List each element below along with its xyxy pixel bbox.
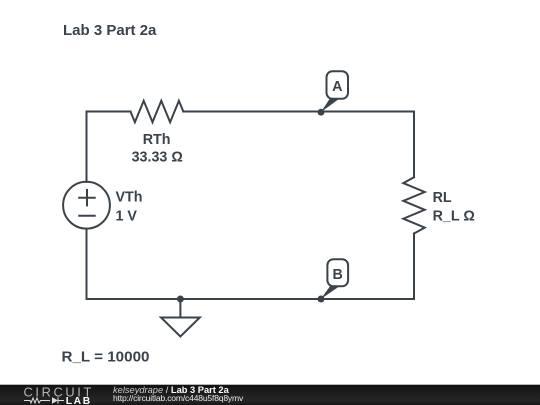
VTh plus sign	[79, 190, 95, 206]
logo diode	[52, 397, 58, 403]
node B flag box	[327, 259, 348, 286]
svg-text:RL: RL	[433, 190, 452, 206]
resistor RTh	[131, 101, 184, 122]
svg-text:Lab 3 Part 2a: Lab 3 Part 2a	[63, 22, 157, 39]
resistor RL	[403, 177, 424, 233]
svg-text:R_L = 10000: R_L = 10000	[62, 349, 150, 366]
svg-text:33.33 Ω: 33.33 Ω	[132, 150, 183, 166]
svg-text:A: A	[332, 79, 342, 95]
logo squiggle wire	[24, 398, 50, 403]
VTh minus sign	[79, 215, 95, 217]
svg-text:LAB: LAB	[66, 396, 92, 405]
footer bar	[0, 385, 540, 405]
node A junction dot	[318, 109, 325, 116]
voltage source VTh circle	[63, 182, 110, 229]
svg-text:B: B	[333, 267, 343, 283]
ground stub	[179, 299, 181, 318]
svg-text:http://circuitlab.com/c448u5f8: http://circuitlab.com/c448u5f8q8ymv	[113, 393, 244, 403]
ground junction dot	[177, 296, 184, 303]
wire right rail bottom	[87, 229, 415, 300]
node B pointer wedge	[321, 286, 340, 299]
wire top-left: left rail top to RTh	[87, 112, 131, 182]
svg-text:RTh: RTh	[143, 132, 171, 148]
svg-text:VTh: VTh	[116, 190, 143, 206]
svg-text:1 V: 1 V	[116, 208, 138, 224]
svg-text:R_L Ω: R_L Ω	[433, 208, 475, 224]
node A flag box	[327, 71, 349, 99]
ground triangle	[161, 318, 200, 337]
node B junction dot	[318, 296, 325, 303]
node A pointer wedge	[321, 99, 339, 112]
wire top: RTh to top-right corner	[183, 112, 414, 178]
